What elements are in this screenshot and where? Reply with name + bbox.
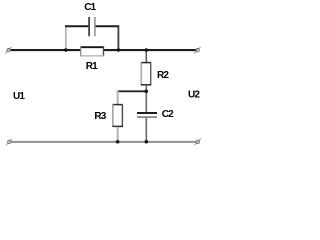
port bottom-right off-page connector [194,139,200,146]
svg-text:C2: C2 [162,109,174,120]
resistor R3 [113,104,123,127]
wire C1 branch right vertical [117,26,119,50]
svg-text:U2: U2 [188,89,200,100]
wire bottom rail [11,141,196,143]
port bottom-left off-page connector [6,139,12,146]
svg-text:R3: R3 [94,111,106,122]
wire R2 top lead [145,50,147,63]
port U2 top-right off-page connector [194,47,200,54]
port U1 top-left off-page connector [5,47,11,54]
resistor R1 [80,47,104,57]
svg-text:R1: R1 [86,61,98,72]
wire C1 branch left vertical [65,26,67,50]
wire R3 bottom lead [117,127,119,142]
wire branch R2/C2 column to R3 [117,90,147,92]
svg-text:U1: U1 [13,91,25,102]
wire C1 right lead [96,25,120,27]
capacitor C1 right plate [94,17,96,36]
capacitor C2 top plate [137,112,157,114]
svg-text:C1: C1 [84,2,96,13]
svg-text:R2: R2 [157,70,169,81]
junction bottom wire / C2 lead [145,140,149,144]
junction bottom wire / R3 lead [116,140,120,144]
resistor R2 [141,63,151,86]
wire R2 bottom lead down to C2 [145,85,147,113]
wire C2 bottom lead [145,117,147,142]
junction top wire / C1 left branch [64,48,68,52]
wire top rail U1 to U2 [11,49,197,51]
capacitor C1 left plate [88,17,90,36]
junction top wire / R2 lead [145,48,149,52]
capacitor C2 bottom plate [137,116,157,118]
junction branch / R2-C2 column [145,89,149,93]
junction top wire / C1 right branch [117,48,121,52]
wire R3 top lead [117,91,119,105]
wire C1 left lead [65,25,88,27]
